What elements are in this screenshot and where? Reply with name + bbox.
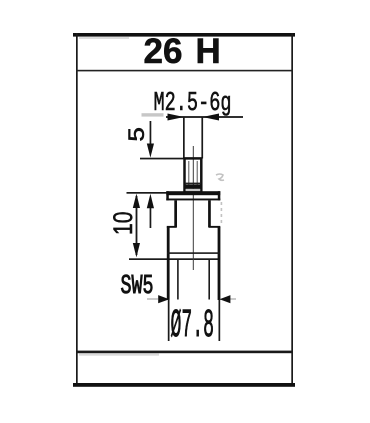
svg-text:H: H [196,32,221,71]
svg-text:5: 5 [124,127,149,142]
svg-text:Ø7.8: Ø7.8 [171,304,215,349]
svg-text:M2.5-6g: M2.5-6g [154,89,232,119]
svg-text:10: 10 [108,212,138,236]
svg-text:SW5: SW5 [121,272,154,302]
svg-text:26: 26 [144,32,183,71]
